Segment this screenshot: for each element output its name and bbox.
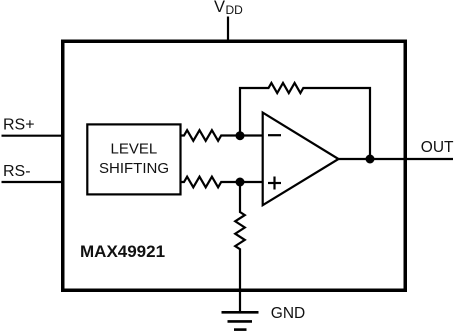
ground symbol bbox=[222, 311, 259, 314]
IC body MAX49921 bbox=[63, 41, 406, 290]
op-amp U1 bbox=[263, 113, 339, 206]
resistor R2 (bottom input, to non-inverting node) bbox=[181, 177, 240, 188]
svg-text:LEVEL: LEVEL bbox=[111, 140, 158, 157]
node junction dot non-inverting input bbox=[236, 178, 245, 187]
wire output bbox=[339, 158, 454, 160]
svg-text:SHIFTING: SHIFTING bbox=[99, 160, 169, 177]
svg-text:DD: DD bbox=[226, 3, 244, 17]
op-amp minus pin marker bbox=[268, 134, 281, 136]
svg-text:MAX49921: MAX49921 bbox=[80, 242, 165, 261]
node junction dot inverting input bbox=[236, 131, 245, 140]
svg-text:V: V bbox=[214, 0, 225, 16]
VDD supply wire bbox=[227, 17, 229, 42]
wire feedback loop with resistor R3 bbox=[240, 83, 370, 159]
svg-text:GND: GND bbox=[271, 305, 305, 322]
wire RS+ input bbox=[2, 135, 63, 137]
level shifting block bbox=[87, 124, 180, 194]
resistor R4 (to ground) bbox=[235, 182, 245, 312]
svg-text:OUT: OUT bbox=[421, 139, 454, 156]
wire RS- input bbox=[2, 181, 63, 183]
node junction dot output bbox=[366, 155, 375, 164]
wire inverting input stub bbox=[240, 134, 263, 136]
svg-text:RS-: RS- bbox=[3, 163, 31, 180]
svg-text:RS+: RS+ bbox=[3, 116, 35, 133]
wire non-inverting input stub bbox=[240, 181, 263, 183]
resistor R1 (top input, to inverting node) bbox=[181, 130, 240, 141]
op-amp plus pin marker bbox=[268, 182, 281, 184]
